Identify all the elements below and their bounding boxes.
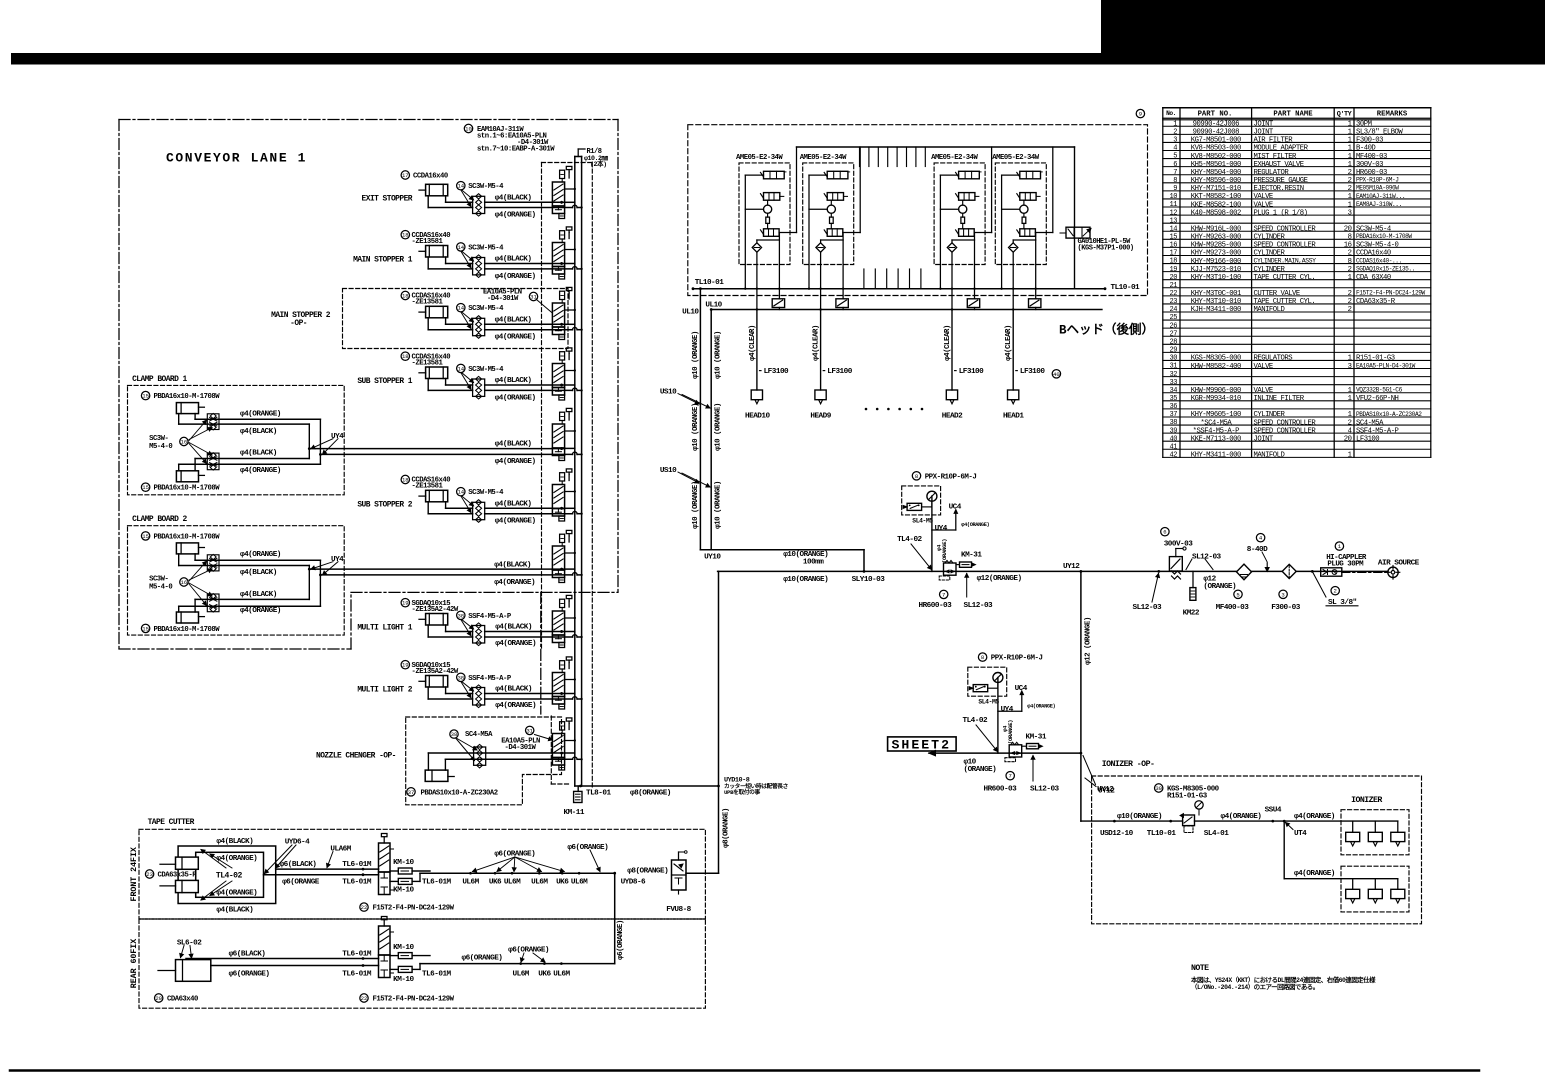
svg-text:AME05-E2-34W: AME05-E2-34W [931,154,978,162]
full-width black title bar [11,53,1545,65]
svg-text:14: 14 [457,365,464,372]
R1/8 supply stub [577,149,579,157]
valve bottom output to top rail [779,232,796,234]
svg-text:(ORANGE): (ORANGE) [964,766,997,774]
svg-text:HEAD10: HEAD10 [745,413,770,421]
balloon 15 upper cylinder [141,532,149,540]
exhaust silencer [1029,299,1041,308]
svg-text:PRESSURE GAUGE: PRESSURE GAUGE [1254,177,1308,185]
svg-text:US10: US10 [660,388,677,396]
svg-text:φ10(ORANGE): φ10(ORANGE) [1117,813,1162,821]
svg-text:φ4(CLEAR): φ4(CLEAR) [749,325,757,361]
svg-text:15: 15 [142,393,149,400]
SHEET2 line [929,752,1081,754]
ejector valve top [1020,171,1041,179]
front KM-10 fittings [398,868,412,874]
svg-text:UL6M: UL6M [553,971,570,979]
svg-text:F15T2-F4-PN-DC24-129W: F15T2-F4-PN-DC24-129W [373,995,455,1003]
wire pair to valve [485,323,565,325]
svg-text:HEAD9: HEAD9 [810,413,831,421]
balloon 14 speed controller label [457,488,465,496]
svg-text:20: 20 [1344,225,1352,233]
svg-text:TL10-01: TL10-01 [1147,830,1177,838]
svg-text:φ4(BLACK): φ4(BLACK) [495,256,532,264]
svg-text:φ4(ORANGE): φ4(ORANGE) [961,522,989,528]
svg-text:FVU8-8: FVU8-8 [666,906,691,914]
svg-text:UL10: UL10 [682,309,699,317]
AME05 module box [934,163,985,265]
svg-text:41: 41 [1170,443,1178,451]
svg-text:CDA 63X40: CDA 63X40 [1356,274,1391,282]
svg-text:1: 1 [1348,145,1352,153]
ejector valve mid [1020,193,1036,201]
svg-text:INLINE FILTER: INLINE FILTER [1254,395,1305,403]
svg-text:KJH-M3411-000: KJH-M3411-000 [1191,306,1241,314]
svg-text:PBDAS10x10-A-ZC230A2: PBDAS10x10-A-ZC230A2 [421,789,498,797]
svg-text:1: 1 [1348,274,1352,282]
svg-text:8: 8 [1173,177,1177,185]
balloon 7 HR600 1 [940,590,948,598]
svg-text:2: 2 [1348,306,1352,314]
ionizer branch row 2 [1283,821,1285,879]
svg-text:φ4(ORANGE): φ4(ORANGE) [495,394,536,402]
conveyor lane 1 frame [119,119,618,121]
svg-text:SL3/8" ELBOW: SL3/8" ELBOW [1356,129,1403,137]
svg-text:K40-M8598-002: K40-M8598-002 [1191,209,1241,217]
svg-text:14: 14 [457,244,464,251]
svg-text:38: 38 [457,674,464,681]
svg-text:R151-01-G3: R151-01-G3 [1167,792,1208,800]
svg-text:F300-03: F300-03 [1356,137,1383,145]
svg-text:KHW-M9285-000: KHW-M9285-000 [1191,242,1241,250]
svg-text:CYLINDER: CYLINDER [1254,250,1286,258]
cluster internal drain lines [1013,239,1035,241]
balloon 22 front cutter valve [360,903,368,911]
balloon 4 B-40D [1256,534,1264,542]
ionizer distribution line [1195,820,1398,822]
rear 60fix box [139,919,705,1008]
svg-text:VALVE: VALVE [1254,201,1273,209]
svg-text:MIST FILTER: MIST FILTER [1254,153,1298,161]
balloon 38 speed controller label [457,673,465,681]
svg-text:29: 29 [1170,347,1178,355]
clamp cylinder upper [176,403,198,414]
svg-text:φ10 (ORANGE): φ10 (ORANGE) [714,331,722,379]
svg-text:φ4(ORANGE): φ4(ORANGE) [240,551,281,559]
svg-text:42: 42 [1170,452,1178,460]
svg-text:φ4(ORANGE): φ4(ORANGE) [494,579,535,587]
svg-text:UL6M: UL6M [462,879,479,887]
svg-text:SC3W-M5-4: SC3W-M5-4 [468,366,504,374]
svg-text:KHY-M7151-010: KHY-M7151-010 [1191,185,1241,193]
left orange feed lines [699,289,701,550]
balloon 40 LF3100 [1052,370,1060,378]
svg-text:39: 39 [1170,427,1178,435]
svg-text:EXIT STOPPER: EXIT STOPPER [362,194,413,203]
svg-text:-ZE135A2-42W: -ZE135A2-42W [412,668,459,676]
svg-text:φ4(ORANGE): φ4(ORANGE) [495,458,536,466]
svg-text:φ4(ORANGE): φ4(ORANGE) [495,702,536,710]
svg-text:φ4(BLACK): φ4(BLACK) [495,317,532,325]
svg-text:SPEED CONTROLLER: SPEED CONTROLLER [1254,427,1317,435]
svg-text:MAIN STOPPER 1: MAIN STOPPER 1 [353,256,413,265]
phi12 riser [1080,571,1082,821]
svg-text:UL6M: UL6M [504,879,521,887]
SL elbow leader [1311,570,1314,573]
svg-text:SL12-03: SL12-03 [964,602,994,610]
cylinder [426,490,448,502]
svg-text:19: 19 [1170,266,1178,274]
R151 regulator [1183,815,1195,826]
top comb ticks [859,147,861,167]
GA010HE1 valve [1066,227,1090,238]
svg-text:23: 23 [1170,298,1178,306]
svg-text:17: 17 [1170,250,1178,258]
svg-text:2: 2 [1348,290,1352,298]
solenoid valve station [552,424,564,448]
svg-text:M5-4-0: M5-4-0 [149,443,172,451]
svg-text:SHEET2: SHEET2 [892,737,951,752]
svg-text:1: 1 [1173,120,1177,128]
clamp output wires [308,424,310,458]
svg-text:CONVEYOR LANE 1: CONVEYOR LANE 1 [166,150,307,165]
parts table [1162,108,1164,458]
svg-text:ULA6M: ULA6M [330,846,351,854]
svg-text:LF3100: LF3100 [764,368,789,376]
svg-text:16: 16 [1344,242,1352,250]
svg-text:40: 40 [1053,371,1060,378]
svg-text:TL6-01M: TL6-01M [342,879,372,887]
svg-text:15: 15 [142,625,149,632]
svg-text:3: 3 [1281,591,1284,598]
svg-text:φ4(BLACK): φ4(BLACK) [240,569,277,577]
svg-text:φ4(CLEAR): φ4(CLEAR) [813,325,821,361]
svg-text:CDA63x35-R: CDA63x35-R [1356,298,1396,306]
svg-text:LF3100: LF3100 [827,368,852,376]
svg-text:34: 34 [1170,387,1178,395]
ejector valve mid [959,193,975,201]
UY10 header line [700,549,864,551]
svg-text:22: 22 [1170,290,1178,298]
svg-text:300V-03: 300V-03 [1164,541,1194,549]
svg-text:REMARKS: REMARKS [1377,110,1408,118]
svg-text:UK6: UK6 [489,879,502,887]
cluster internal drain lines [821,239,844,241]
svg-text:φ12 (ORANGE): φ12 (ORANGE) [1084,617,1092,665]
wire pair nozzle changer [428,752,564,754]
svg-text:3: 3 [1348,363,1352,371]
svg-text:KHY-M3T10-010: KHY-M3T10-010 [1191,298,1241,306]
svg-text:TAPE CUTTER CYL.: TAPE CUTTER CYL. [1254,298,1316,306]
head drop line [951,289,953,310]
svg-text:MODULE ADAPTER: MODULE ADAPTER [1254,145,1309,153]
check valve diamond [1012,240,1014,289]
ejector valve top [827,171,848,179]
head drop line [1012,289,1014,310]
ionizer unit 2 box [1341,866,1409,912]
svg-text:90990-42J006: 90990-42J006 [1193,121,1239,129]
svg-text:*SC4-M5A: *SC4-M5A [1200,419,1232,427]
svg-text:SSF4-M5-A-P: SSF4-M5-A-P [468,675,512,683]
svg-text:14: 14 [1170,225,1178,233]
svg-text:20: 20 [155,995,162,1002]
valve bottom [827,229,843,237]
check valve diamond [951,240,953,289]
svg-text:KV8-M8503-000: KV8-M8503-000 [1191,145,1241,153]
svg-text:CYLINDER: CYLINDER [1254,411,1286,419]
balloon 17 cylinder label [401,171,409,179]
balloon 23 CDA63x35-R [145,870,153,878]
svg-text:IONIZER -OP-: IONIZER -OP- [1102,760,1155,769]
balloon 22 rear cutter valve [360,994,368,1002]
B head dashed enclosure [688,125,1148,296]
svg-text:TL6-01M: TL6-01M [342,951,372,959]
solenoid valve station [552,243,564,267]
svg-text:25: 25 [1170,314,1178,322]
wire valve top [809,174,827,176]
svg-text:VFU2-66P-NH: VFU2-66P-NH [1356,395,1399,403]
svg-text:MANIFOLD: MANIFOLD [1254,306,1285,314]
svg-text:UK6: UK6 [556,879,569,887]
balloon 15 lower cylinder [141,624,149,632]
nozzle changer cylinder [425,770,448,781]
svg-text:M5-4-0: M5-4-0 [149,583,172,591]
svg-text:TL6-01M: TL6-01M [342,971,372,979]
svg-text:24: 24 [1170,306,1178,314]
svg-text:KHY-M3T10-100: KHY-M3T10-100 [1191,274,1241,282]
svg-text:35: 35 [1170,395,1178,403]
svg-text:EJECTOR.RESIN: EJECTOR.RESIN [1254,185,1304,193]
svg-text:6: 6 [1173,161,1177,169]
svg-text:5: 5 [1173,153,1177,161]
svg-text:21: 21 [1170,282,1178,290]
svg-text:φ4(ORANGE): φ4(ORANGE) [240,411,281,419]
svg-text:Bヘッド（後側）: Bヘッド（後側） [1059,321,1154,337]
svg-text:1: 1 [1348,411,1352,419]
svg-text:26: 26 [1170,322,1178,330]
S box [830,213,832,217]
svg-text:20: 20 [1170,274,1178,282]
svg-text:LF3100: LF3100 [959,368,984,376]
svg-text:φ4(BLACK): φ4(BLACK) [240,591,277,599]
svg-text:F300-03: F300-03 [1271,604,1301,612]
svg-text:SC3W-M5-4: SC3W-M5-4 [468,489,504,497]
svg-text:KGR-M9934-010: KGR-M9934-010 [1191,395,1241,403]
speed controller pair [473,688,485,706]
balloon 9 table [1136,109,1144,117]
svg-text:φ6(ORANGE: φ6(ORANGE [282,879,320,887]
balloon 37 PBDAS label [407,788,415,796]
svg-text:SL6-02: SL6-02 [177,940,202,948]
svg-text:φ6(ORANGE): φ6(ORANGE) [508,947,549,955]
svg-text:PBDA16x10-M-1708W: PBDA16x10-M-1708W [154,393,221,401]
svg-text:7: 7 [1009,773,1012,780]
svg-text:φ4(BLACK): φ4(BLACK) [216,838,253,846]
SHEET2 box [888,737,957,751]
svg-text:φ4(ORANGE): φ4(ORANGE) [495,334,536,342]
svg-text:HEAD1: HEAD1 [1003,413,1024,421]
svg-text:2: 2 [1348,250,1352,258]
svg-text:REGULATORS: REGULATORS [1254,355,1293,363]
manifold bottom KM-11 silencer [575,785,582,787]
svg-text:15: 15 [142,484,149,491]
nozzle changer option box [406,717,562,805]
balloon 14 speed controller label [457,182,465,190]
svg-text:UY10: UY10 [704,554,721,562]
svg-text:-ZE13581: -ZE13581 [412,359,444,367]
svg-text:KHY-M3411-000: KHY-M3411-000 [1191,452,1241,460]
svg-text:(2本): (2本) [590,159,607,168]
svg-text:CDA63x35-R: CDA63x35-R [158,871,198,879]
svg-text:3: 3 [1173,137,1177,145]
svg-text:φ4(BLACK): φ4(BLACK) [240,450,277,458]
svg-text:TAPE CUTTER: TAPE CUTTER [148,818,195,827]
valve bottom output to top rail [1035,232,1052,234]
mini regulator [973,685,988,692]
UC4 stub [932,529,956,531]
svg-text:B-40D: B-40D [1356,145,1375,153]
svg-text:KM-31: KM-31 [1026,734,1047,742]
wire pair to valve [485,384,565,386]
svg-text:28: 28 [1170,338,1178,346]
svg-text:φ4(ORANGE): φ4(ORANGE) [495,211,536,219]
svg-text:4: 4 [1348,427,1352,435]
balloon 18 cylinder label [401,352,409,360]
regulator circle [962,200,964,205]
svg-text:VALVE: VALVE [1254,387,1273,395]
balloon 15 upper cylinder [141,391,149,399]
svg-text:UK6: UK6 [538,971,551,979]
svg-text:3: 3 [1348,209,1352,217]
svg-text:14: 14 [457,183,464,190]
hi-cappler joint [1321,568,1342,576]
svg-text:18: 18 [402,232,409,239]
svg-text:HEAD2: HEAD2 [942,413,963,421]
svg-text:1: 1 [1348,121,1352,129]
svg-text:UY12: UY12 [1098,788,1115,796]
balloon 8 PPX pressure gauge [978,653,986,661]
valve bottom output to top rail [843,232,860,234]
svg-text:MF400-03: MF400-03 [1216,604,1250,612]
svg-text:TL10-01: TL10-01 [695,279,725,287]
svg-text:SL4-M5: SL4-M5 [978,699,999,706]
solenoid valve station [552,485,564,509]
balloon 14 speed controller label [457,243,465,251]
svg-text:36: 36 [1170,403,1178,411]
cylinder [426,184,448,196]
svg-text:φ8(ORANGE): φ8(ORANGE) [722,808,730,848]
ejector valve mid [764,193,780,201]
balloon 14 speed controller label [457,304,465,312]
svg-text:MULTI LIGHT 2: MULTI LIGHT 2 [357,686,412,695]
svg-text:KKE-M8582-100: KKE-M8582-100 [1191,201,1241,209]
svg-text:F15T2-F4-PN-DC24-129W: F15T2-F4-PN-DC24-129W [373,905,455,913]
svg-text:NOTE: NOTE [1191,964,1209,973]
svg-text:15: 15 [1170,233,1178,241]
svg-text:KM-11: KM-11 [564,809,585,817]
regulator circle [767,200,769,205]
svg-text:PPX-R10P-6M-J: PPX-R10P-6M-J [1356,177,1399,184]
svg-text:1: 1 [1348,201,1352,209]
clamp wires lower [179,605,321,607]
HR600 regulator on line 2 [1009,745,1022,757]
svg-text:CYLINDER: CYLINDER [1254,234,1286,242]
gauge riser column [997,683,999,689]
svg-text:φ4(ORANGE): φ4(ORANGE) [495,518,536,526]
svg-text:SL12-03: SL12-03 [1192,553,1222,561]
UY12 leader 2 [1083,756,1096,785]
valve bottom [1020,229,1036,237]
balloon 2 SL 3/8 [1331,587,1339,595]
svg-text:7: 7 [1173,169,1177,177]
svg-text:LF3100: LF3100 [1356,435,1379,443]
svg-text:-ZE13581: -ZE13581 [412,483,444,491]
wire valve top [745,174,763,176]
svg-text:LF3100: LF3100 [1020,368,1045,376]
AME05 module box [803,163,854,265]
svg-text:φ6(ORANGE): φ6(ORANGE) [462,954,503,962]
ionizer nozzles row 2 [1352,879,1354,890]
valve bottom output to top rail [974,232,991,234]
svg-text:SPEED CONTROLLER: SPEED CONTROLLER [1254,419,1317,427]
svg-text:14: 14 [457,305,464,312]
svg-text:SSF4-M5-A-P: SSF4-M5-A-P [1356,427,1399,435]
balloon 18 cylinder label [401,291,409,299]
svg-text:PBDA16x10-M-1708W: PBDA16x10-M-1708W [154,533,221,541]
svg-text:PBDA16x10-M-1708W: PBDA16x10-M-1708W [154,626,221,634]
svg-text:CCDAS16x40-...: CCDAS16x40-... [1356,257,1402,264]
title block black bar top-right [1101,0,1545,65]
clamp board box CLAMP BOARD 1 [128,385,345,494]
svg-text:KHY-M9605-100: KHY-M9605-100 [1191,411,1241,419]
UY4 column 1 [931,496,933,571]
svg-text:16: 16 [181,579,188,586]
clamp cylinder upper [176,543,198,554]
svg-text:φ4(ORANGE): φ4(ORANGE) [216,890,257,898]
svg-text:23: 23 [146,871,153,878]
svg-text:31: 31 [526,727,533,734]
svg-text:19: 19 [402,662,409,669]
svg-text:SC4-M5A: SC4-M5A [1356,419,1384,427]
svg-text:本図は、YS24X（KKT）におけるDL間隄24連固定、右偤: 本図は、YS24X（KKT）におけるDL間隄24連固定、右偤60連固定仕様 [1191,975,1376,984]
gauge riser column [931,501,933,507]
svg-text:13: 13 [1170,217,1178,225]
svg-text:SC3W-M5-4: SC3W-M5-4 [468,305,504,313]
cylinder [426,306,448,318]
balloon 30 KGS regulator [1155,784,1163,792]
svg-text:AME05-E2-34W: AME05-E2-34W [800,154,847,162]
svg-text:9: 9 [1173,185,1177,193]
speed controller pair [474,747,486,765]
svg-text:FRONT 24FIX: FRONT 24FIX [129,847,139,901]
svg-text:UT4: UT4 [1294,830,1307,838]
svg-text:VALVE: VALVE [1254,193,1273,201]
svg-text:19: 19 [402,600,409,607]
regulator circle [830,200,832,205]
svg-text:SLY10-03: SLY10-03 [852,576,886,584]
svg-text:8: 8 [1348,258,1352,266]
svg-text:16: 16 [1170,242,1178,250]
balloon 19 cylinder label [401,661,409,669]
gauge circle [993,673,1003,683]
svg-text:CCDA16x40: CCDA16x40 [413,172,448,180]
svg-text:PBDA16x10-M-1708W: PBDA16x10-M-1708W [1356,233,1412,240]
svg-text:SL4-01: SL4-01 [1204,830,1229,838]
svg-text:EXHAUST VALVE: EXHAUST VALVE [1254,161,1304,169]
front 24fix box [139,829,705,919]
svg-text:φ10 (ORANGE): φ10 (ORANGE) [714,481,722,529]
ejector valve top [959,171,980,179]
